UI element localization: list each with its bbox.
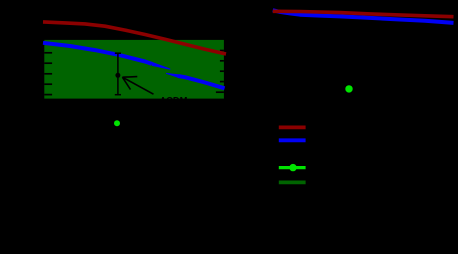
green band (axhspan) left panel — [44, 40, 224, 99]
svg-text:ΛCDM: ΛCDM — [160, 94, 188, 105]
blue model curve segment A, left panel — [43, 43, 152, 64]
left spine ticks (left panel, pointing in) — [44, 53, 52, 95]
black errorbar at x=118 — [115, 53, 121, 96]
green measurement dot, right panel — [345, 85, 352, 92]
right spine ticks (left panel) — [216, 51, 224, 93]
legend green errorbar dot — [289, 164, 296, 171]
black data dot on errorbar — [115, 73, 120, 78]
legend dark green patch — [279, 180, 306, 184]
legend green errorbar line — [279, 166, 306, 169]
green measurement dot, left panel (below axes) — [114, 120, 120, 126]
blue segment A tapered tip — [152, 62, 170, 70]
red model curve, left panel — [43, 22, 226, 54]
legend blue line — [279, 138, 306, 142]
legend red line — [279, 126, 306, 130]
red model curve, right panel — [273, 11, 454, 16]
blue model curve segment B, left panel — [166, 73, 178, 78]
annotation arrow — [122, 77, 153, 95]
blue model curve, right panel — [273, 10, 454, 23]
